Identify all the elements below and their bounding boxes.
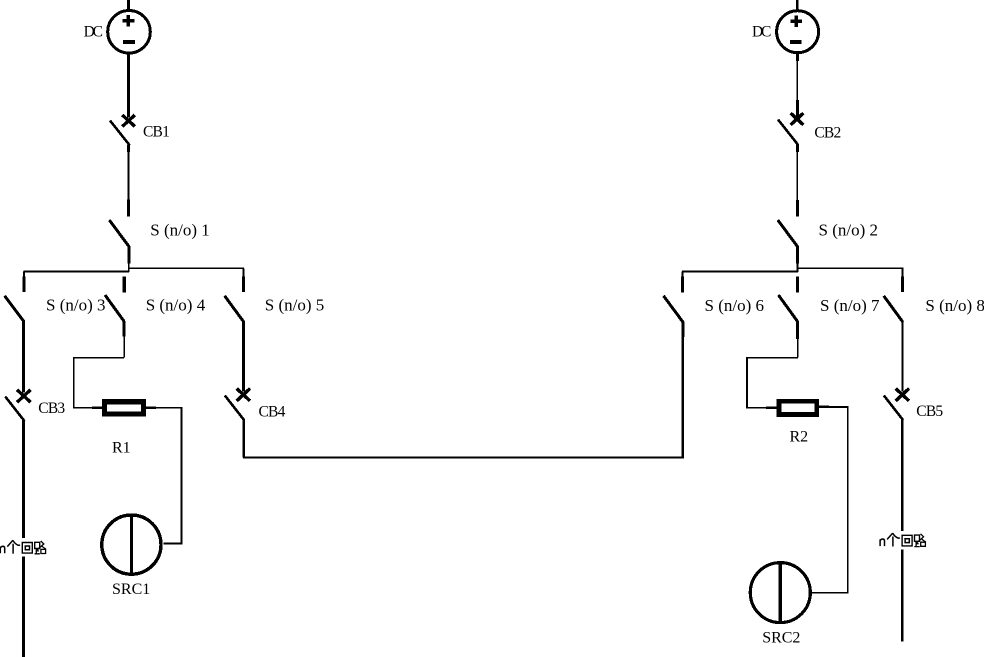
svg-text:CB1: CB1 (143, 123, 169, 140)
svg-text:S (n/o) 1: S (n/o) 1 (150, 220, 210, 239)
svg-text:SRC2: SRC2 (762, 630, 800, 647)
svg-text:CB2: CB2 (814, 124, 840, 141)
svg-text:S (n/o) 7: S (n/o) 7 (820, 296, 880, 315)
svg-text:CB3: CB3 (38, 400, 65, 417)
svg-text:R1: R1 (112, 440, 131, 457)
svg-text:SRC1: SRC1 (112, 581, 150, 598)
svg-text:DC: DC (752, 24, 771, 41)
svg-text:CB4: CB4 (259, 404, 286, 421)
svg-text:CB5: CB5 (916, 403, 943, 420)
svg-text:S (n/o) 6: S (n/o) 6 (705, 296, 765, 315)
svg-text:DC: DC (84, 23, 103, 40)
svg-text:S (n/o) 8: S (n/o) 8 (925, 296, 984, 315)
svg-text:S (n/o) 2: S (n/o) 2 (819, 220, 879, 239)
svg-text:R2: R2 (790, 428, 809, 445)
svg-text:S (n/o) 4: S (n/o) 4 (146, 295, 206, 314)
svg-text:S (n/o) 5: S (n/o) 5 (265, 295, 325, 314)
svg-text:S (n/o) 3: S (n/o) 3 (46, 295, 106, 314)
